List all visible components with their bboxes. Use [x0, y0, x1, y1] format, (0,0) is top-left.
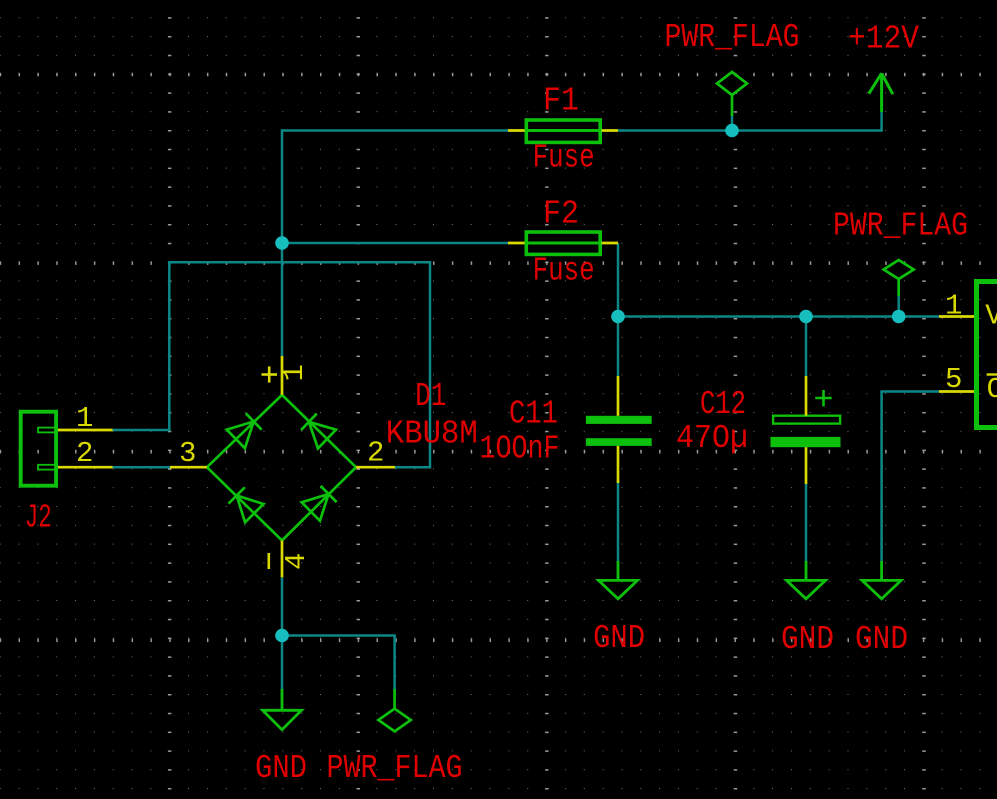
- wire to bottom PWR_FLAG: [282, 636, 395, 691]
- capacitor C11: [586, 416, 652, 446]
- wire bridge+ to F1: [282, 129, 508, 132]
- wire U1 pin5 to GND: [882, 392, 939, 563]
- minus mark: [267, 553, 270, 569]
- connector J2: [21, 412, 56, 486]
- diode upper-left: [227, 412, 263, 448]
- wire rail to C12: [805, 317, 808, 377]
- plus mark: [262, 366, 278, 382]
- power symbol PWR_FLAG right: [884, 260, 914, 296]
- regulator U1 (partially off-screen): [977, 282, 997, 428]
- U1 pin 5: [939, 390, 974, 393]
- wire junction to F2: [282, 242, 508, 245]
- junction (898.7,316.5): [892, 310, 906, 324]
- svg-text:47Oµ: 47Oµ: [676, 420, 748, 457]
- D1 pin 4 (-bottom): [281, 541, 284, 578]
- svg-text:J2: J2: [25, 499, 52, 536]
- wire +12V riser: [880, 112, 883, 132]
- svg-text:3: 3: [179, 437, 196, 470]
- ground GND3: [862, 561, 901, 599]
- wire top PWR_FLAG stem: [731, 115, 734, 131]
- wire C11 to GND: [617, 483, 620, 562]
- svg-text:V: V: [985, 300, 997, 333]
- svg-text:F1: F1: [543, 83, 579, 120]
- capacitor C12: [773, 416, 840, 424]
- svg-text:KBU8M: KBU8M: [386, 416, 478, 453]
- fuse F2: [524, 232, 602, 254]
- wire rail to PWR_FLAG stem: [897, 295, 900, 317]
- svg-text:+12V: +12V: [848, 21, 919, 58]
- svg-text:Fuse: Fuse: [533, 252, 595, 289]
- C12 plus mark: [815, 390, 831, 406]
- power symbol PWR_FLAG bottom: [378, 689, 410, 731]
- diode lower-right: [302, 485, 338, 521]
- svg-text:2: 2: [76, 437, 93, 470]
- svg-text:D1: D1: [415, 378, 446, 415]
- wire C12 to GND: [805, 484, 808, 562]
- pin number D1-4 (rotated): [280, 553, 313, 570]
- svg-text:1: 1: [76, 402, 93, 435]
- junction (282,635.5): [275, 629, 289, 643]
- svg-text:O: O: [987, 373, 997, 406]
- J2 pin 2: [58, 466, 113, 469]
- svg-text:GND: GND: [855, 621, 908, 658]
- D1 pin 2 (right): [356, 466, 395, 469]
- svg-text:1: 1: [945, 290, 962, 323]
- svg-text:C11: C11: [509, 396, 558, 433]
- svg-text:GND: GND: [593, 620, 645, 657]
- junction (618,316.5): [611, 310, 625, 324]
- D1 pin 1 (+top): [281, 356, 284, 395]
- power symbol +12V: [869, 73, 893, 112]
- diode upper-right: [300, 412, 336, 448]
- svg-text:F2: F2: [543, 195, 579, 232]
- pin number D1-1 (rotated): [278, 364, 311, 381]
- U1 pin 1: [939, 315, 974, 318]
- svg-text:1OOnF: 1OOnF: [480, 430, 560, 467]
- svg-text:5: 5: [945, 363, 962, 396]
- bridge rectifier D1 KBU8M: [207, 395, 356, 541]
- power symbol PWR_FLAG top: [717, 72, 747, 116]
- svg-text:PWR_FLAG: PWR_FLAG: [833, 208, 968, 245]
- svg-text:4: 4: [280, 553, 313, 570]
- fuse F1: [524, 120, 602, 142]
- junction (282,243): [275, 236, 289, 250]
- svg-text:1: 1: [278, 364, 311, 381]
- svg-text:GND: GND: [255, 750, 307, 787]
- wire main +12V rail to U1 pin1: [618, 315, 939, 318]
- junction (732,130.5): [725, 124, 739, 138]
- diode lower-left: [227, 486, 263, 522]
- J2 pin 1: [58, 429, 113, 432]
- wire F2 to C11 node: [617, 243, 620, 376]
- wire F1 to +12V node: [618, 129, 882, 132]
- junction (806,316.5): [799, 310, 813, 324]
- svg-text:C12: C12: [700, 386, 746, 423]
- wire J2 pin2 to bridge pin3: [113, 466, 170, 469]
- wire J2 pin1 to bridge pin2: [113, 262, 430, 467]
- svg-text:PWR_FLAG: PWR_FLAG: [327, 750, 463, 787]
- svg-text:GND: GND: [781, 621, 834, 658]
- wire bridge+ vertical: [281, 129, 284, 356]
- D1 pin 3 (left): [170, 466, 207, 469]
- svg-text:2: 2: [367, 437, 384, 470]
- svg-text:Fuse: Fuse: [533, 140, 595, 177]
- ground GND1: [599, 561, 638, 599]
- ground GND bottom: [263, 689, 302, 730]
- wire bridge- down: [281, 577, 284, 690]
- svg-text:PWR_FLAG: PWR_FLAG: [665, 19, 800, 56]
- ground GND2: [787, 561, 826, 599]
